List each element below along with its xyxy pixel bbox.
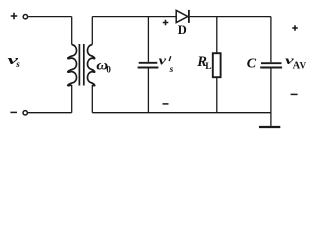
- svg-text:v: v: [159, 53, 167, 68]
- capacitor C bottom plate: [260, 67, 282, 69]
- node vs-prime top junction / wire: [147, 17, 149, 62]
- capacitor of tuned circuit top plate: [139, 62, 158, 64]
- minus sign of vs-prime: [163, 103, 169, 105]
- wire primary bottom stub: [71, 85, 73, 113]
- diode D triangle: [176, 10, 188, 22]
- capacitor C top plate: [261, 62, 282, 64]
- wire top rail secondary to diode: [92, 16, 176, 18]
- plus sign of vAV: [292, 25, 298, 31]
- minus sign of vAV: [291, 93, 298, 95]
- ground symbol: [259, 126, 280, 128]
- svg-text:s: s: [15, 59, 20, 69]
- wire bottom rail: [92, 112, 271, 114]
- wire bottom-left rail: [28, 112, 72, 114]
- wire top-left rail: [28, 16, 71, 18]
- diode D cathode bar: [188, 10, 190, 23]
- minus sign of source vs: [10, 111, 17, 113]
- transformer primary winding: [68, 45, 77, 86]
- svg-text:C: C: [247, 57, 257, 72]
- terminal top-left: [23, 15, 27, 19]
- transformer secondary winding: [87, 45, 94, 86]
- wire primary top stub: [71, 17, 73, 45]
- wire secondary bottom stub: [91, 85, 93, 113]
- svg-text:V: V: [300, 60, 307, 70]
- svg-text:0: 0: [106, 65, 111, 75]
- svg-text:D: D: [178, 23, 187, 37]
- resistor RL body: [213, 53, 221, 77]
- wire diode to RL junction to C corner: [190, 16, 271, 18]
- transformer core bar left: [78, 44, 80, 86]
- svg-text:L: L: [205, 62, 211, 72]
- wire secondary top stub: [91, 17, 93, 45]
- transformer core bar right: [83, 44, 85, 86]
- wire RL bottom stub: [216, 77, 218, 113]
- svg-text:s: s: [169, 65, 174, 75]
- terminal bottom-left: [23, 111, 27, 115]
- capacitor of tuned circuit bottom plate: [138, 67, 159, 69]
- wire vs-prime capacitor to bottom rail: [147, 68, 149, 112]
- wire C branch to ground: [270, 68, 272, 126]
- wire C branch top stub: [270, 17, 272, 63]
- plus sign of source vs: [11, 13, 18, 20]
- plus sign of vs-prime: [163, 20, 169, 26]
- wire RL top stub: [216, 17, 218, 54]
